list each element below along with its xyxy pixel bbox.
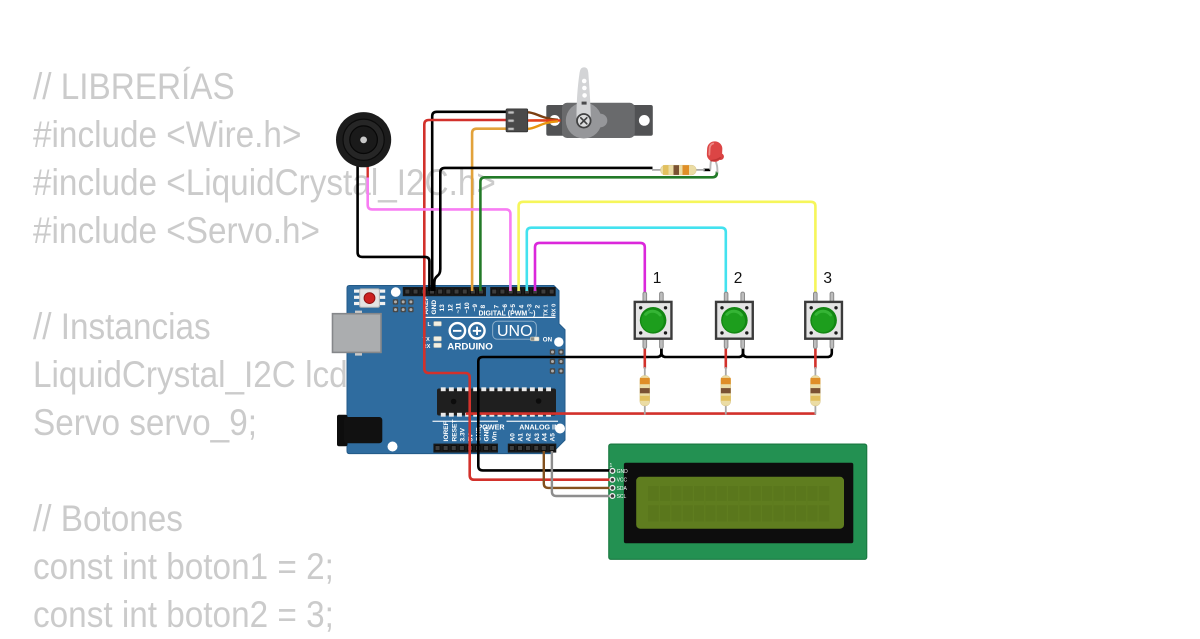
resistor R1 bbox=[640, 367, 650, 415]
svg-text:GND: GND bbox=[484, 427, 491, 442]
mounting hole bottom-right bbox=[555, 424, 565, 434]
background code text bbox=[33, 63, 544, 639]
mounting hole top-left bbox=[391, 287, 401, 297]
L LED bbox=[434, 322, 442, 326]
svg-text:A3: A3 bbox=[534, 433, 541, 442]
servo mount hole left bbox=[549, 115, 560, 126]
svg-text:A4: A4 bbox=[541, 433, 548, 442]
analog pin labels bbox=[509, 433, 556, 442]
pushbutton SW1 bbox=[635, 292, 672, 348]
wire LED cathode (green) to pin 8 bbox=[480, 172, 717, 292]
LCD pin labels bbox=[617, 469, 629, 500]
LCD screen bbox=[636, 477, 844, 529]
svg-text:2: 2 bbox=[734, 270, 743, 287]
svg-text:ON: ON bbox=[543, 337, 553, 344]
wire buzzer negative (black) to GND bbox=[358, 163, 430, 291]
pushbutton SW3 bbox=[805, 292, 842, 348]
servo screw bbox=[577, 114, 591, 128]
silkscreen lines bottom bbox=[433, 421, 499, 422]
wire GND bus vertical (black) bbox=[478, 345, 661, 448]
svg-text:UNO: UNO bbox=[497, 323, 533, 340]
LED resistor R4 bbox=[652, 165, 705, 175]
LED D1 bbox=[706, 141, 724, 172]
UNO label bbox=[493, 321, 537, 340]
reset button bbox=[354, 289, 385, 307]
LCD character grid bbox=[648, 486, 829, 522]
Arduino UNO board U1 bbox=[333, 286, 566, 454]
svg-text:DIGITAL (PWM ~): DIGITAL (PWM ~) bbox=[479, 309, 536, 318]
servo horn bbox=[577, 67, 591, 121]
svg-text:RX 0: RX 0 bbox=[551, 304, 557, 317]
svg-text:~10: ~10 bbox=[464, 302, 471, 314]
wire A4 to LCD SDA (brown) bbox=[544, 451, 613, 488]
wire buzzer positive (pink) to pin 5 bbox=[368, 177, 511, 292]
Arduino logo bbox=[450, 323, 485, 338]
digital pin labels bbox=[423, 297, 558, 317]
silkscreen line top bbox=[423, 317, 556, 318]
svg-text:13: 13 bbox=[439, 304, 446, 312]
svg-text:Vin: Vin bbox=[491, 431, 498, 441]
svg-text:IOREF: IOREF bbox=[443, 421, 450, 441]
mounting hole bottom-left bbox=[388, 442, 398, 452]
digital header right strip bbox=[490, 287, 556, 296]
svg-text:1: 1 bbox=[653, 270, 662, 287]
svg-text:~11: ~11 bbox=[456, 302, 463, 313]
pushbutton SW2 bbox=[716, 292, 753, 348]
svg-text:A0: A0 bbox=[509, 433, 516, 442]
svg-text:TX 1: TX 1 bbox=[543, 303, 549, 316]
board PCB bbox=[347, 286, 565, 454]
resistor R3 bbox=[811, 367, 821, 415]
servo mounting plate bbox=[546, 105, 653, 136]
ON LED bbox=[531, 337, 540, 341]
LCD bezel bbox=[624, 463, 853, 544]
servo cable orange bbox=[528, 121, 559, 129]
svg-text:SDA: SDA bbox=[617, 486, 628, 492]
wire GND to LED resistor (black) bbox=[434, 168, 652, 291]
power header strip bbox=[433, 444, 498, 453]
wire 5V bus to button resistors (red) bbox=[466, 412, 816, 415]
resistor R2 bbox=[721, 367, 731, 415]
wire servo signal (orange) to pin 9 bbox=[472, 129, 506, 291]
servo gear large bbox=[566, 103, 602, 139]
servo cable red bbox=[528, 119, 561, 122]
svg-text:A2: A2 bbox=[526, 433, 533, 442]
LCD PCB bbox=[609, 444, 867, 559]
svg-text:RESET: RESET bbox=[451, 420, 458, 442]
servo cable brown bbox=[528, 112, 559, 120]
svg-text:A5: A5 bbox=[549, 433, 556, 442]
mounting hole top-right bbox=[554, 337, 563, 346]
wire button3 to resistor (red) bbox=[814, 345, 817, 368]
svg-text:VCC: VCC bbox=[617, 478, 628, 484]
wire button2 to resistor (red) bbox=[724, 345, 727, 368]
power jack J1 bbox=[337, 415, 382, 447]
servo mount hole right bbox=[639, 115, 650, 126]
analog header strip bbox=[508, 444, 557, 453]
svg-text:ARDUINO: ARDUINO bbox=[447, 341, 493, 351]
servo gear small bbox=[594, 114, 608, 128]
svg-text:ANALOG IN: ANALOG IN bbox=[519, 423, 559, 432]
servo M1 bbox=[506, 67, 653, 138]
svg-text:A1: A1 bbox=[518, 433, 525, 442]
wire servo V+ (red) to 5V and LCD VCC bbox=[424, 120, 612, 480]
digital header left strip bbox=[403, 287, 486, 296]
svg-text:SCL: SCL bbox=[617, 494, 627, 500]
ATmega328 chip bbox=[437, 387, 556, 416]
svg-text:2: 2 bbox=[535, 305, 542, 309]
servo body bbox=[562, 103, 635, 138]
svg-text:12: 12 bbox=[447, 304, 454, 312]
wire A5 to LCD SCL (gray) bbox=[552, 451, 613, 496]
servo connector bbox=[506, 109, 528, 132]
svg-text:3.3V: 3.3V bbox=[459, 427, 466, 441]
LCD1602 I2C display bbox=[609, 444, 867, 559]
wire button2 to button3 GND (black) bbox=[743, 345, 832, 357]
wire pin 3 (cyan) to button 2 bbox=[527, 228, 726, 294]
TX LED bbox=[434, 337, 442, 341]
wire pin 2 (magenta) to button 1 bbox=[535, 243, 645, 294]
wire LED series segment (black) bbox=[704, 169, 711, 172]
buzzer BZ1 bbox=[336, 112, 391, 177]
svg-text:3: 3 bbox=[823, 270, 832, 287]
svg-text:GND: GND bbox=[617, 469, 629, 475]
wires bbox=[358, 112, 832, 496]
wire button1 to resistor (red) bbox=[643, 345, 646, 368]
wire button1 to button2 GND (black) bbox=[661, 345, 743, 357]
ICSP header 1 bbox=[393, 299, 414, 312]
svg-text:GND: GND bbox=[431, 300, 438, 315]
LCD pins bbox=[610, 469, 615, 499]
ICSP header 2 bbox=[550, 349, 564, 373]
RX LED bbox=[434, 343, 442, 347]
wire pin 4 (yellow) to button 3 bbox=[519, 202, 816, 294]
USB connector bbox=[333, 311, 382, 356]
wire GND to LCD GND (black) bbox=[478, 448, 612, 470]
wire servo GND (black) bbox=[432, 112, 506, 291]
power pin labels bbox=[443, 420, 498, 442]
